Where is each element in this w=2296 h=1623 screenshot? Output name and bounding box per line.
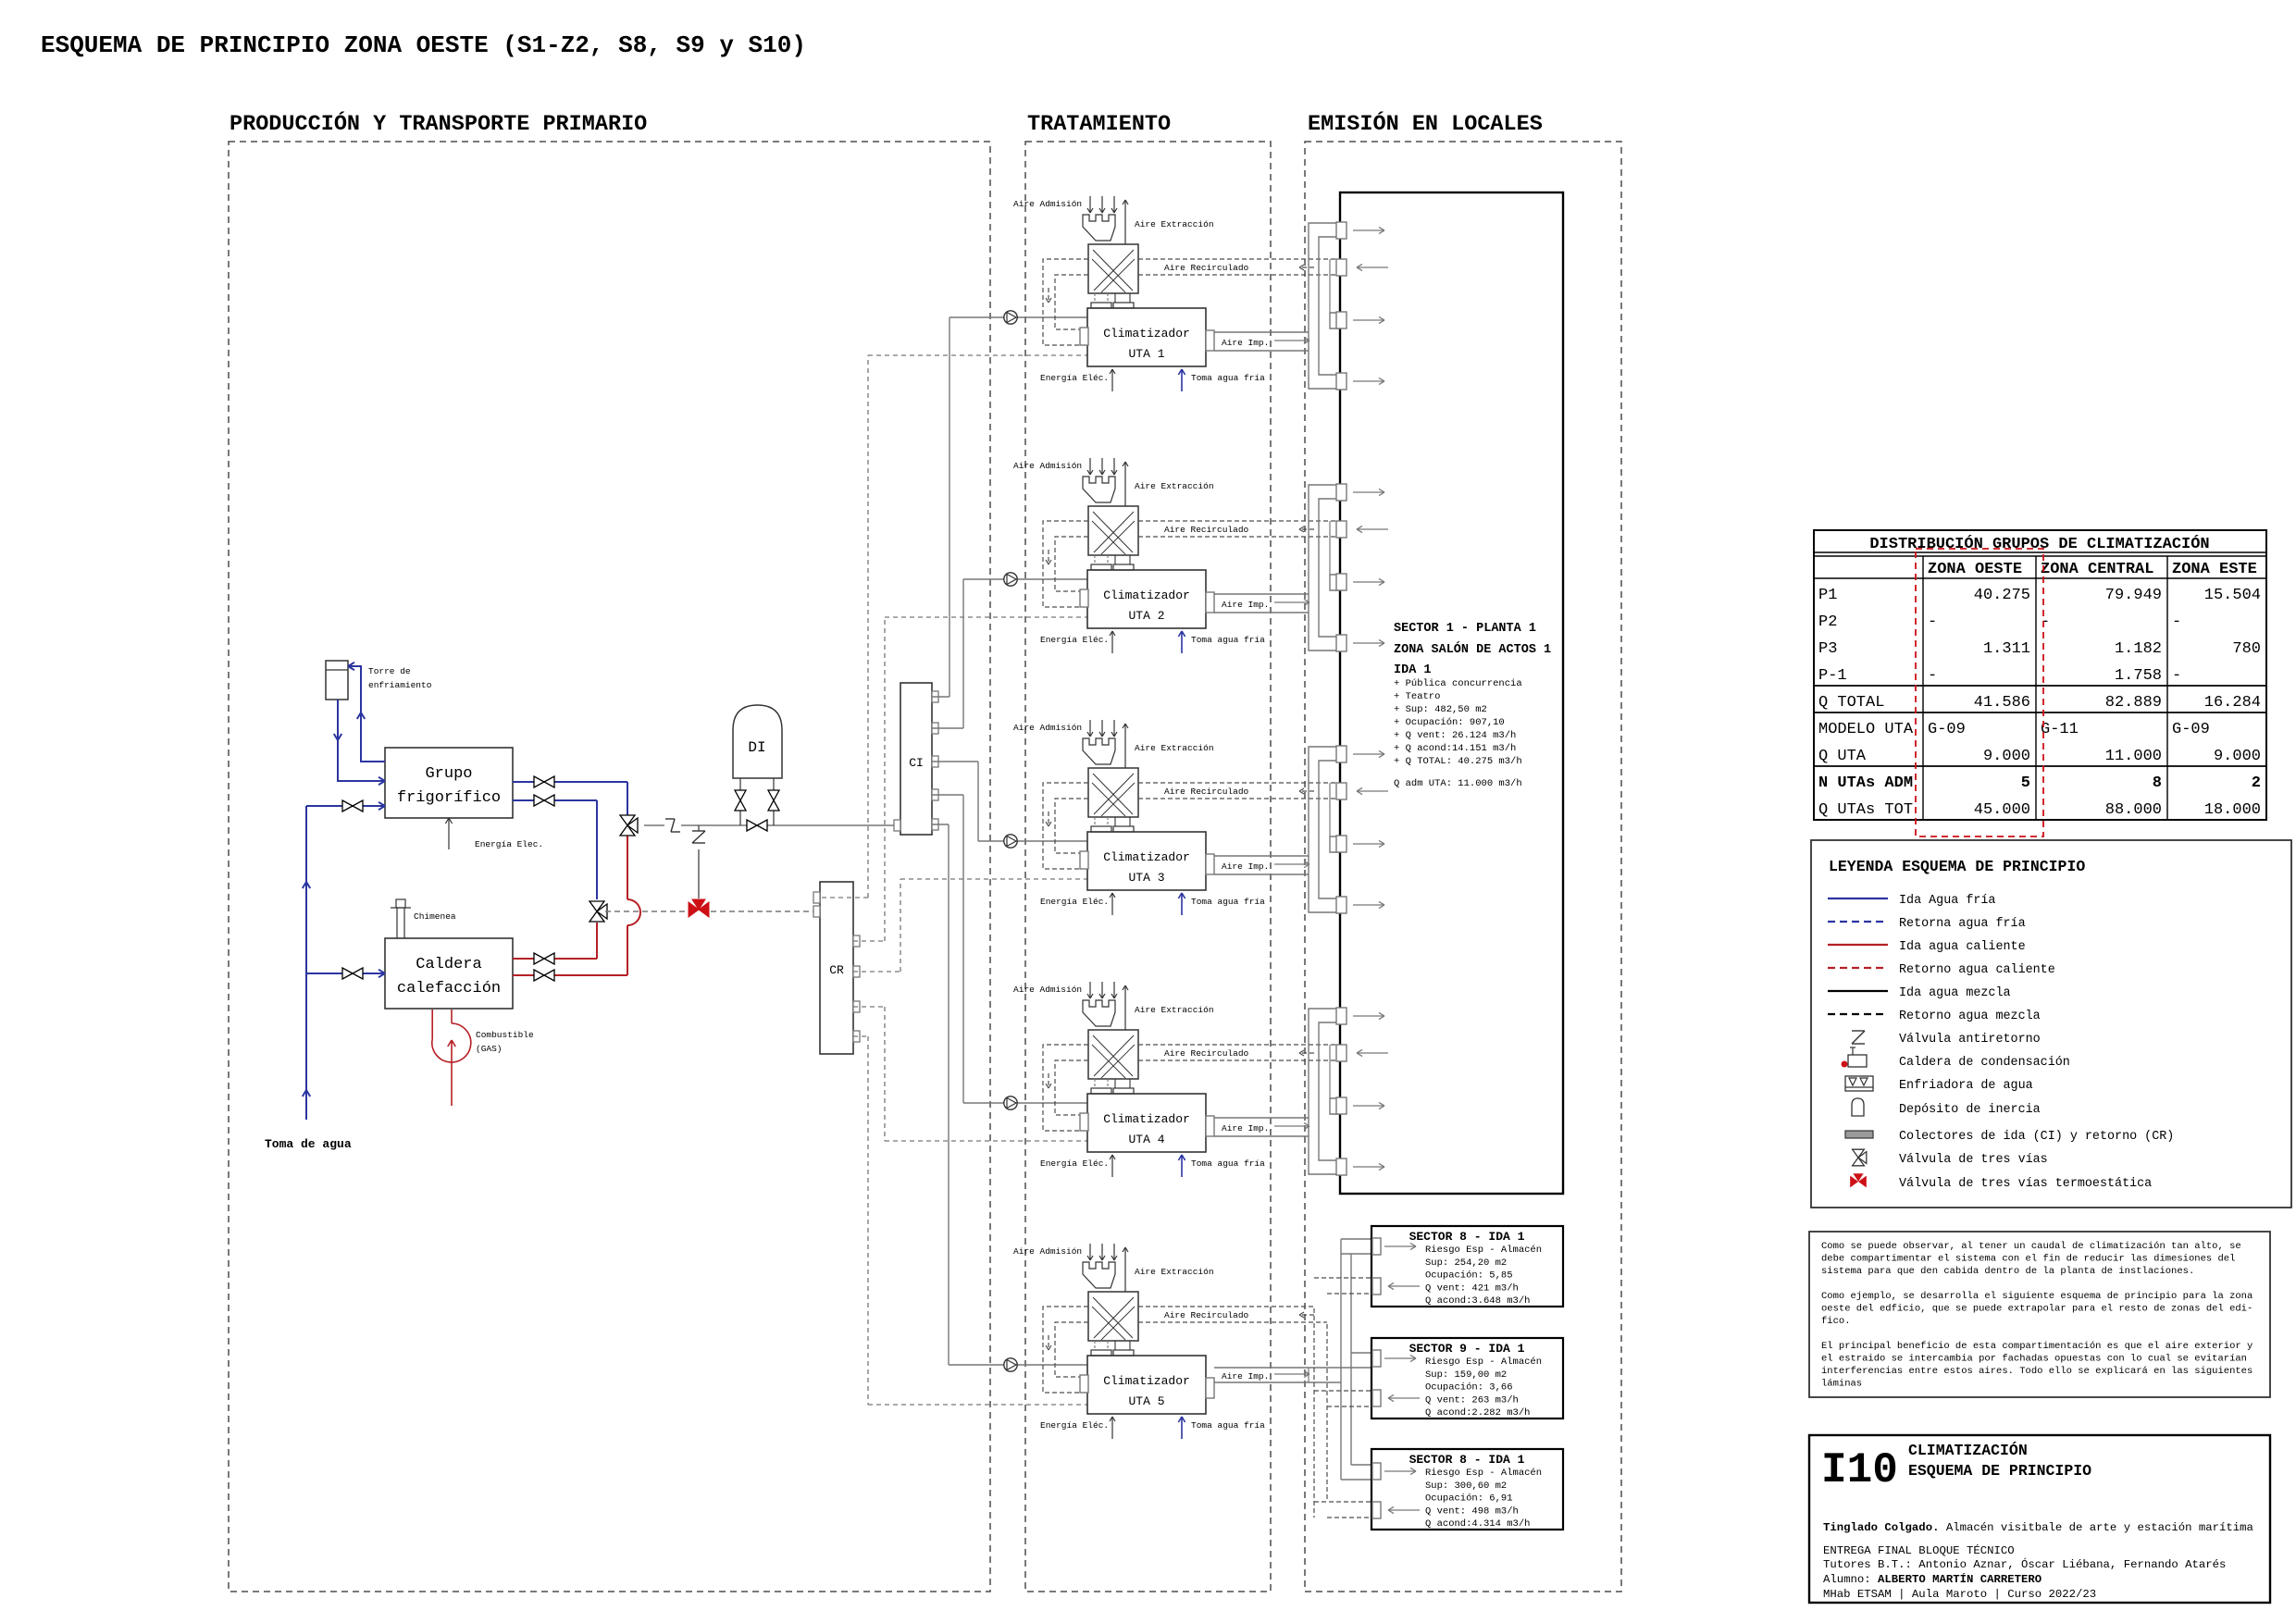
wire ida agua caliente caldera outlet A [513, 958, 597, 960]
UTA 3 recirculado return arrow [1299, 790, 1314, 792]
svg-text:Aire Imp.: Aire Imp. [1222, 861, 1269, 872]
svg-text:Aire Recirculado: Aire Recirculado [1164, 1048, 1249, 1059]
legend entry Retorno agua caliente [1828, 967, 1888, 969]
svg-text:Tinglado Colgado. Almacén visi: Tinglado Colgado. Almacén visitbale de a… [1823, 1521, 2253, 1534]
emission manifold for UTA 4 recirc channel [1330, 1098, 1340, 1114]
svg-text:+ Q TOTAL: 40.275 m3/h: + Q TOTAL: 40.275 m3/h [1394, 756, 1522, 767]
svg-text:Aire Extracción: Aire Extracción [1135, 1267, 1214, 1277]
wire condenser water torre to grupo [338, 700, 385, 781]
svg-text:Ida Agua fría: Ida Agua fría [1899, 894, 1995, 908]
chimenea symbol [396, 908, 398, 938]
UTA 4 aire recirculado dashed pair [1138, 1044, 1338, 1046]
svg-text:Torre de: Torre de [368, 666, 411, 676]
UTA 3 left air port [1080, 851, 1088, 869]
dashed zone box tratamiento [1025, 142, 1271, 1592]
svg-text:Como ejemplo, se desarrolla el: Como ejemplo, se desarrolla el siguiente… [1821, 1291, 2253, 1302]
svg-text:2: 2 [2252, 774, 2261, 792]
sector box 1 return port and arrow [1372, 1278, 1381, 1295]
emission manifold for UTA 4 inner bracket [1319, 1022, 1340, 1160]
deposito de inercia DI vessel [733, 705, 782, 778]
svg-text:P1: P1 [1818, 587, 1837, 604]
UTA 4 recirculado loop to left port [1043, 1045, 1088, 1131]
svg-text:Aire Recirculado: Aire Recirculado [1164, 787, 1249, 797]
svg-text:MHab ETSAM | Aula Maroto | Cur: MHab ETSAM | Aula Maroto | Curso 2022/23 [1823, 1588, 2096, 1601]
svg-text:40.275: 40.275 [1974, 587, 2030, 604]
wire retorno fria grupo outlet B [513, 799, 597, 801]
svg-text:1.311: 1.311 [1983, 640, 2030, 658]
emission air arrows UTA 1 [1353, 229, 1384, 231]
svg-text:Riesgo Esp - Almacén: Riesgo Esp - Almacén [1425, 1245, 1542, 1256]
UTA 1 intake crown [1083, 215, 1115, 241]
svg-text:Sup: 159,00 m2: Sup: 159,00 m2 [1425, 1369, 1507, 1381]
pump bomba UTA 3 [1004, 835, 1017, 848]
UTA 4 aire impulsion duct [1214, 1117, 1309, 1119]
UTA 1 energia electrica arrow [1111, 369, 1113, 391]
svg-text:-: - [2041, 613, 2050, 631]
wire return UTA 4 to CR dashed [853, 1006, 885, 1008]
svg-text:ZONA SALÓN DE ACTOS 1: ZONA SALÓN DE ACTOS 1 [1394, 642, 1551, 657]
svg-text:Riesgo Esp - Almacén: Riesgo Esp - Almacén [1425, 1357, 1542, 1368]
svg-text:Aire Recirculado: Aire Recirculado [1164, 263, 1249, 273]
svg-text:9.000: 9.000 [1983, 748, 2030, 765]
UTA 2 recirculado loop to left port [1043, 521, 1088, 607]
UTA 3 toma agua fria arrow [1181, 893, 1183, 915]
svg-text:+ Teatro: + Teatro [1394, 691, 1440, 702]
emission manifold for UTA 1 recirc channel [1330, 313, 1340, 328]
svg-text:Toma agua fría: Toma agua fría [1191, 635, 1265, 645]
svg-text:Toma agua fría: Toma agua fría [1191, 897, 1265, 907]
svg-text:Climatizador: Climatizador [1103, 1112, 1190, 1126]
svg-text:(GAS): (GAS) [476, 1044, 503, 1054]
svg-text:Válvula antiretorno: Válvula antiretorno [1899, 1033, 2041, 1047]
svg-text:Q vent: 421 m3/h: Q vent: 421 m3/h [1425, 1282, 1519, 1294]
svg-text:Q adm UTA: 11.000 m3/h: Q adm UTA: 11.000 m3/h [1394, 778, 1522, 789]
svg-text:Aire Extracción: Aire Extracción [1135, 743, 1214, 753]
svg-text:+ Pública concurrencia: + Pública concurrencia [1394, 678, 1522, 689]
svg-text:CR: CR [829, 963, 844, 977]
svg-text:UTA 3: UTA 3 [1128, 871, 1164, 885]
UTA 5 exchanger duct collars [1094, 1341, 1096, 1350]
UTA 1 left air port [1080, 328, 1088, 345]
UTA 3 right air port [1206, 854, 1214, 874]
svg-text:1.182: 1.182 [2115, 640, 2162, 658]
svg-text:Riesgo Esp - Almacén: Riesgo Esp - Almacén [1425, 1468, 1542, 1479]
UTA 4 aire admision arrows [1089, 982, 1091, 998]
svg-text:-: - [2172, 613, 2181, 631]
legend entry Ida Agua fría [1828, 898, 1888, 899]
UTA 5 left air port [1080, 1375, 1088, 1393]
svg-text:Chimenea: Chimenea [414, 911, 456, 922]
svg-text:Energía Eléc.: Energía Eléc. [1040, 1420, 1109, 1431]
legend box leyenda esquema de principio [1811, 840, 2291, 1208]
dashed zone box produccion y transporte primario [229, 142, 990, 1592]
UTA 2 energia electrica arrow [1111, 631, 1113, 653]
valve on caldera outlet B [534, 970, 544, 981]
svg-text:el estraido se intercambia por: el estraido se intercambia por fachadas … [1821, 1354, 2247, 1365]
svg-text:Ocupación: 3,66: Ocupación: 3,66 [1425, 1382, 1513, 1394]
svg-text:5: 5 [2021, 774, 2030, 792]
combustible gas burner symbol [432, 1023, 471, 1062]
emission ports UTA 3 [1336, 746, 1347, 762]
DI leg left with valve [739, 778, 741, 825]
svg-text:Como se puede observar, al ten: Como se puede observar, al tener un caud… [1821, 1241, 2241, 1252]
grupo frigorifico chiller box [385, 748, 513, 818]
emission manifold for UTA 1 inner bracket [1319, 237, 1340, 375]
wire return UTA 2 to CR dashed [853, 940, 885, 942]
svg-text:11.000: 11.000 [2105, 748, 2162, 765]
UTA 2 aire extraccion arrow [1124, 462, 1126, 506]
svg-text:P-1: P-1 [1818, 667, 1847, 685]
svg-text:Colectores de ida (CI) y retor: Colectores de ida (CI) y retorno (CR) [1899, 1130, 2174, 1144]
UTA 5 aire recirculado dashed pair [1138, 1306, 1314, 1307]
svg-text:Aire Recirculado: Aire Recirculado [1164, 525, 1249, 535]
UTA 4 recirculado return arrow [1299, 1052, 1314, 1054]
svg-text:Aire Imp.: Aire Imp. [1222, 1123, 1269, 1134]
svg-text:Energía Eléc.: Energía Eléc. [1040, 635, 1109, 645]
UTA 4 left air port [1080, 1113, 1088, 1131]
water intake blue riser wire [305, 806, 307, 1120]
svg-text:sistema para que den cabida de: sistema para que den cabida dentro de la… [1821, 1266, 2194, 1277]
UTA 2 aire impulsion duct [1214, 593, 1309, 595]
UTA 5 aire admision arrows [1089, 1244, 1091, 1260]
svg-text:G-11: G-11 [2041, 721, 2079, 738]
svg-text:Q vent: 263 m3/h: Q vent: 263 m3/h [1425, 1394, 1519, 1406]
svg-text:frigorífico: frigorífico [397, 789, 501, 807]
svg-text:ZONA OESTE: ZONA OESTE [1928, 561, 2022, 578]
svg-text:Sup: 254,20 m2: Sup: 254,20 m2 [1425, 1258, 1507, 1269]
svg-text:UTA 5: UTA 5 [1128, 1394, 1164, 1408]
UTA 4 energia electrica arrow [1111, 1155, 1113, 1177]
svg-text:Climatizador: Climatizador [1103, 327, 1190, 341]
svg-text:Grupo: Grupo [425, 765, 472, 783]
UTA 5 aire extraccion arrow [1124, 1247, 1126, 1292]
wire return UTA 3 to CR dashed [853, 971, 900, 973]
svg-text:1.758: 1.758 [2115, 667, 2162, 685]
svg-text:Q acond:4.314 m3/h: Q acond:4.314 m3/h [1425, 1518, 1530, 1530]
svg-text:Aire Admisión: Aire Admisión [1013, 1246, 1082, 1257]
svg-text:Toma de agua: Toma de agua [265, 1137, 352, 1151]
UTA 5 recirculado return arrow [1299, 1314, 1314, 1316]
shutoff valve on caldera inlet [342, 968, 353, 979]
wire ida agua fria grupo outlet A [513, 781, 627, 783]
pump bomba UTA 4 [1004, 1096, 1017, 1109]
svg-text:Aire Admisión: Aire Admisión [1013, 461, 1082, 471]
svg-text:Q UTAs TOT: Q UTAs TOT [1818, 801, 1913, 819]
svg-text:Retorno agua mezcla: Retorno agua mezcla [1899, 1010, 2041, 1023]
UTA 2 right air port [1206, 592, 1214, 613]
emission manifold for UTA 1 outer bracket [1309, 223, 1340, 389]
svg-text:debe compartimentar el sistema: debe compartimentar el sistema con el fi… [1821, 1254, 2235, 1265]
valve on mezcla line under DI [747, 820, 757, 831]
svg-text:Aire Imp.: Aire Imp. [1222, 600, 1269, 610]
svg-text:Toma agua fría: Toma agua fría [1191, 373, 1265, 383]
UTA 3 intake crown [1083, 738, 1115, 764]
CI connector tabs [932, 691, 938, 702]
sector box 3 return port and arrow [1372, 1502, 1381, 1518]
wire mezcla supply to CI [644, 824, 900, 826]
svg-text:oeste del edficio, que se pued: oeste del edficio, que se puede extrapol… [1821, 1304, 2253, 1315]
emission manifold for UTA 2 recirc channel [1330, 575, 1340, 590]
UTA 2 recirculado return arrow [1299, 528, 1314, 530]
svg-text:+ Ocupación: 907,10: + Ocupación: 907,10 [1394, 717, 1505, 728]
climatizador UTA 3 box [1087, 832, 1206, 890]
svg-text:82.889: 82.889 [2105, 694, 2162, 712]
svg-text:Aire Admisión: Aire Admisión [1013, 199, 1082, 209]
UTA 4 right air port [1206, 1116, 1214, 1136]
svg-text:G-09: G-09 [1928, 721, 1966, 738]
UTA 3 aire recirculado dashed pair [1138, 782, 1338, 784]
UTA 2 exchanger duct collars [1094, 555, 1096, 564]
pump bomba UTA 2 [1004, 573, 1017, 586]
emission ports UTA 4 [1336, 1008, 1347, 1024]
energia electrica arrow into grupo [448, 818, 450, 849]
svg-text:láminas: láminas [1821, 1379, 1862, 1390]
svg-text:DI: DI [748, 739, 765, 756]
svg-text:ESQUEMA DE PRINCIPIO ZONA OEST: ESQUEMA DE PRINCIPIO ZONA OESTE (S1-Z2, … [41, 31, 806, 59]
svg-text:Aire Imp.: Aire Imp. [1222, 1371, 1269, 1381]
svg-text:Q TOTAL: Q TOTAL [1818, 694, 1884, 712]
svg-text:8: 8 [2153, 774, 2162, 792]
svg-text:Enfriadora de agua: Enfriadora de agua [1899, 1079, 2033, 1093]
combustible gas supply arrow [451, 1040, 453, 1106]
svg-text:MODELO UTA: MODELO UTA [1818, 721, 1914, 738]
svg-text:SECTOR 8 - IDA 1: SECTOR 8 - IDA 1 [1409, 1453, 1525, 1467]
svg-text:Combustible: Combustible [476, 1030, 534, 1040]
svg-text:Ocupación: 6,91: Ocupación: 6,91 [1425, 1493, 1513, 1505]
svg-text:Energía Elec.: Energía Elec. [475, 839, 543, 849]
wire CI supply to UTA 1 [932, 696, 949, 698]
valve on caldera outlet A [534, 953, 544, 964]
pump bomba UTA 5 [1004, 1358, 1017, 1371]
sector box 1 SECTOR 8 - IDA 1 [1371, 1226, 1563, 1307]
svg-text:45.000: 45.000 [1974, 801, 2030, 819]
svg-text:Aire Extracción: Aire Extracción [1135, 1005, 1214, 1015]
legend entry Ida agua caliente [1828, 944, 1888, 946]
table distribucion grupos de climatizacion [1814, 530, 2266, 820]
sector box 2 supply port and arrow [1372, 1350, 1381, 1367]
climatizador UTA 1 box [1087, 308, 1206, 366]
emission manifold for UTA 2 outer bracket [1309, 485, 1340, 650]
svg-text:Aire Extracción: Aire Extracción [1135, 219, 1214, 229]
svg-text:PRODUCCIÓN Y TRANSPORTE PRIMAR: PRODUCCIÓN Y TRANSPORTE PRIMARIO [230, 110, 647, 137]
antiretorno valve vertical branch [689, 827, 711, 849]
svg-text:TRATAMIENTO: TRATAMIENTO [1027, 112, 1171, 137]
notes text box [1809, 1232, 2270, 1397]
valve on grupo outlet A [534, 776, 544, 787]
svg-text:-: - [1928, 613, 1937, 631]
UTA 3 aire extraccion arrow [1124, 724, 1126, 768]
three way valve V2 mixing [590, 901, 604, 911]
UTA 1 aire impulsion duct [1214, 331, 1309, 333]
svg-text:interferencias entre estos air: interferencias entre estos aires. Todo e… [1821, 1366, 2253, 1377]
svg-text:+ Sup: 482,50 m2: + Sup: 482,50 m2 [1394, 704, 1487, 715]
emission manifold for UTA 2 inner bracket [1319, 499, 1340, 637]
svg-text:Q vent: 498 m3/h: Q vent: 498 m3/h [1425, 1505, 1519, 1517]
svg-text:Ida agua mezcla: Ida agua mezcla [1899, 986, 2011, 1000]
emission manifold for UTA 3 inner bracket [1319, 761, 1340, 898]
title block box [1809, 1435, 2270, 1603]
sector box 2 return port and arrow [1372, 1390, 1381, 1406]
svg-text:Q UTA: Q UTA [1818, 748, 1867, 765]
emission ports UTA 2 [1336, 484, 1347, 501]
svg-text:Ida agua caliente: Ida agua caliente [1899, 940, 2026, 954]
UTA 5 right air port [1206, 1378, 1214, 1398]
svg-text:Q acond:3.648 m3/h: Q acond:3.648 m3/h [1425, 1295, 1530, 1307]
wire mezcla return dashed to CR [605, 911, 687, 912]
svg-text:Aire Imp.: Aire Imp. [1222, 338, 1269, 348]
CR connector tabs [853, 935, 860, 947]
climatizador UTA 2 box [1087, 570, 1206, 628]
UTA 4 intake crown [1083, 1000, 1115, 1026]
svg-text:Retorna agua fría: Retorna agua fría [1899, 917, 2026, 931]
svg-text:Tutores B.T.: Antonio Aznar, Ó: Tutores B.T.: Antonio Aznar, Óscar Liéba… [1823, 1557, 2226, 1571]
emission air arrows UTA 2 [1353, 491, 1384, 493]
UTA 5 aire impulsion duct [1214, 1367, 1309, 1369]
UTA 1 recirculado loop to left port [1043, 259, 1088, 345]
svg-text:780: 780 [2232, 640, 2261, 658]
legend entry Enfriadora de agua [1845, 1076, 1873, 1091]
svg-text:Aire Admisión: Aire Admisión [1013, 985, 1082, 995]
caldera calefaccion boiler box [385, 938, 513, 1009]
svg-text:ZONA ESTE: ZONA ESTE [2172, 561, 2257, 578]
svg-text:Climatizador: Climatizador [1103, 588, 1190, 602]
svg-text:Energía Eléc.: Energía Eléc. [1040, 373, 1109, 383]
svg-text:79.949: 79.949 [2105, 587, 2162, 604]
red dashed highlight zona oeste column [1916, 549, 2043, 836]
UTA 3 exchanger duct collars [1094, 817, 1096, 826]
svg-text:Aire Admisión: Aire Admisión [1013, 723, 1082, 733]
UTA 5 intake crown [1083, 1262, 1115, 1288]
svg-text:Aire Recirculado: Aire Recirculado [1164, 1310, 1249, 1320]
svg-text:CLIMATIZACIÓN: CLIMATIZACIÓN [1908, 1442, 2028, 1459]
emission manifold for UTA 3 recirc channel [1330, 836, 1340, 852]
wire water to grupo frigorifico inlet [306, 805, 385, 807]
svg-text:+ Q acond:14.151 m3/h: + Q acond:14.151 m3/h [1394, 743, 1516, 754]
UTA 5 toma agua fria arrow [1181, 1417, 1183, 1439]
svg-text:ENTREGA FINAL BLOQUE TÉCNICO: ENTREGA FINAL BLOQUE TÉCNICO [1823, 1543, 2015, 1557]
UTA 4 heat recovery exchanger [1088, 1030, 1138, 1079]
wire CI supply to UTA 2 [932, 727, 963, 729]
svg-text:UTA 4: UTA 4 [1128, 1133, 1164, 1146]
UTA 2 left air port [1080, 589, 1088, 607]
svg-text:88.000: 88.000 [2105, 801, 2162, 819]
svg-text:I10: I10 [1821, 1446, 1898, 1494]
cooling tower torre de enfriamiento [326, 661, 348, 700]
svg-text:SECTOR 1 - PLANTA 1: SECTOR 1 - PLANTA 1 [1394, 622, 1536, 636]
UTA 3 aire imp arrow [1274, 863, 1309, 865]
sector box 3 SECTOR 8 - IDA 1 [1371, 1449, 1563, 1530]
svg-text:EMISIÓN EN LOCALES: EMISIÓN EN LOCALES [1308, 110, 1543, 137]
emission manifold for UTA 3 outer bracket [1309, 747, 1340, 912]
svg-text:SECTOR 9 - IDA 1: SECTOR 9 - IDA 1 [1409, 1342, 1525, 1356]
shutoff valve on grupo inlet [342, 800, 353, 811]
three way valve V1 mixing [620, 815, 635, 825]
wire condenser water grupo to torre [348, 666, 385, 762]
wire agua caliente caldera outlet B with crossing bump [513, 974, 627, 976]
climatizador UTA 5 box [1087, 1356, 1206, 1414]
UTA 1 aire extraccion arrow [1124, 200, 1126, 244]
emission air arrows UTA 3 [1353, 753, 1384, 755]
UTA 2 heat recovery exchanger [1088, 506, 1138, 555]
svg-text:Válvula de tres vías: Válvula de tres vías [1899, 1153, 2048, 1167]
svg-text:Climatizador: Climatizador [1103, 1374, 1190, 1388]
svg-text:41.586: 41.586 [1974, 694, 2030, 712]
UTA 1 recirculado return arrow [1299, 266, 1314, 268]
svg-text:ZONA CENTRAL: ZONA CENTRAL [2041, 561, 2153, 578]
legend entry Depósito de inercia [1852, 1098, 1864, 1116]
return trunk dashed to UTA 5 [1313, 1308, 1315, 1518]
UTA 3 energia electrica arrow [1111, 893, 1113, 915]
UTA 4 toma agua fria arrow [1181, 1155, 1183, 1177]
UTA 5 heat recovery exchanger [1088, 1292, 1138, 1341]
wire water to caldera inlet [306, 973, 385, 974]
emission air arrows UTA 4 [1353, 1015, 1384, 1017]
svg-text:UTA 2: UTA 2 [1128, 609, 1164, 623]
svg-text:CI: CI [909, 756, 924, 770]
svg-text:-: - [1928, 667, 1937, 685]
wire CI supply to UTA 3 [932, 761, 978, 762]
svg-text:SECTOR 8 - IDA 1: SECTOR 8 - IDA 1 [1409, 1230, 1525, 1244]
svg-text:18.000: 18.000 [2204, 801, 2261, 819]
svg-text:Energía Eléc.: Energía Eléc. [1040, 897, 1109, 907]
svg-text:P2: P2 [1818, 613, 1837, 631]
svg-text:UTA 1: UTA 1 [1128, 347, 1164, 361]
UTA 4 aire imp arrow [1274, 1125, 1309, 1127]
legend entry Colectores de ida (CI) y retorno (CR) [1845, 1131, 1873, 1138]
sector box 1 supply port and arrow [1372, 1238, 1381, 1255]
UTA 1 toma agua fria arrow [1181, 369, 1183, 391]
UTA 4 exchanger duct collars [1094, 1079, 1096, 1088]
thermostatic three way valve red [698, 847, 700, 898]
svg-text:Caldera de condensación: Caldera de condensación [1899, 1056, 2070, 1070]
emission ports UTA 1 [1336, 222, 1347, 239]
svg-text:N UTAs ADM: N UTAs ADM [1818, 774, 1913, 792]
UTA 3 aire admision arrows [1089, 720, 1091, 737]
valve on grupo outlet B [534, 795, 544, 806]
svg-text:9.000: 9.000 [2214, 748, 2261, 765]
svg-text:+ Q vent: 26.124 m3/h: + Q vent: 26.124 m3/h [1394, 730, 1516, 741]
wire return UTA 5 to CR dashed [853, 1035, 868, 1037]
dashed zone box emision en locales [1305, 142, 1621, 1592]
UTA 1 right air port [1206, 330, 1214, 351]
svg-text:calefacción: calefacción [397, 980, 501, 997]
UTA 5 aire imp arrow [1274, 1373, 1309, 1375]
UTA 1 heat recovery exchanger [1088, 244, 1138, 293]
collector de retorno CR [820, 882, 853, 1054]
svg-text:Toma agua fría: Toma agua fría [1191, 1420, 1265, 1431]
wire CI supply to UTA 5 [932, 824, 949, 825]
svg-text:Toma agua fría: Toma agua fría [1191, 1158, 1265, 1169]
svg-text:-: - [2172, 667, 2181, 685]
UTA 3 recirculado loop to left port [1043, 783, 1088, 869]
svg-text:Aire Extracción: Aire Extracción [1135, 481, 1214, 491]
svg-text:Válvula de tres vías termoestá: Válvula de tres vías termoestática [1899, 1177, 2152, 1191]
UTA 1 aire imp arrow [1274, 340, 1309, 341]
legend entry Retorna agua fría [1828, 921, 1888, 923]
UTA 4 aire extraccion arrow [1124, 985, 1126, 1030]
UTA 3 aire impulsion duct [1214, 855, 1309, 857]
svg-text:El principal beneficio de esta: El principal beneficio de esta compartim… [1821, 1341, 2253, 1352]
UTA 1 exchanger duct collars [1094, 293, 1096, 303]
wire CI supply to UTA 4 [932, 794, 963, 796]
legend entry Ida agua mezcla [1828, 990, 1888, 992]
UTA 2 aire admision arrows [1089, 458, 1091, 475]
legend entry Válvula de tres vías termoestática [1850, 1173, 1867, 1187]
wire UTA 5 duct joins supply trunk [1309, 1367, 1341, 1369]
svg-text:fico.: fico. [1821, 1316, 1851, 1327]
pump bomba UTA 1 [1004, 311, 1017, 324]
legend entry Válvula antiretorno [1852, 1030, 1865, 1032]
